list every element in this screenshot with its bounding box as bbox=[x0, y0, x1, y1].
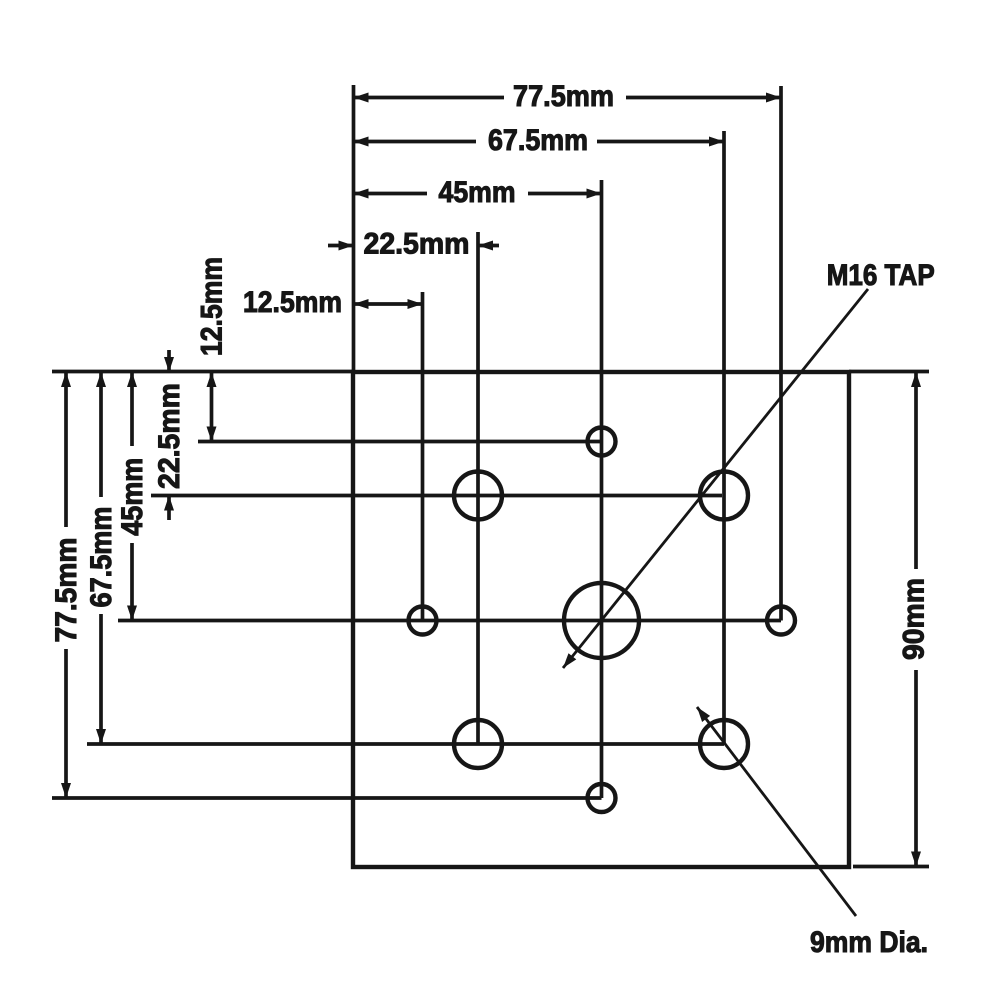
svg-text:12.5mm: 12.5mm bbox=[243, 286, 342, 319]
leader line M16 TAP bbox=[563, 289, 868, 668]
svg-text:67.5mm: 67.5mm bbox=[488, 124, 588, 157]
extension line 45mm row bbox=[118, 619, 781, 623]
dimension 90mm right bbox=[898, 372, 931, 867]
hole mid-right small bbox=[767, 607, 795, 635]
svg-text:12.5mm: 12.5mm bbox=[196, 257, 229, 356]
svg-text:45mm: 45mm bbox=[439, 176, 516, 209]
extension line top edge horizontal bbox=[52, 370, 355, 374]
svg-text:45mm: 45mm bbox=[116, 458, 149, 536]
hole lower-right 9mm bbox=[700, 720, 748, 768]
svg-text:22.5mm: 22.5mm bbox=[153, 383, 186, 489]
extension line 77.5mm row bbox=[52, 796, 602, 800]
dimension 45mm left bbox=[116, 372, 149, 621]
hole mid-left small bbox=[409, 607, 437, 635]
extension line left edge vertical bbox=[352, 85, 356, 372]
hole top-center small bbox=[588, 428, 616, 456]
label 9mm Dia bbox=[810, 926, 928, 959]
svg-text:67.5mm: 67.5mm bbox=[85, 507, 118, 608]
hole lower-left 9mm bbox=[454, 720, 502, 768]
hole upper-left 9mm bbox=[454, 472, 502, 520]
extension line top right bbox=[849, 370, 929, 374]
extension line 22.5mm row bbox=[151, 494, 722, 498]
hole bottom-center small bbox=[588, 784, 616, 812]
extension line bottom right bbox=[853, 865, 929, 869]
hole center M16 bbox=[564, 583, 639, 658]
label M16 TAP bbox=[827, 259, 935, 292]
svg-text:90mm: 90mm bbox=[898, 578, 931, 660]
dimension 67.5mm top bbox=[354, 124, 725, 157]
svg-text:77.5mm: 77.5mm bbox=[513, 80, 614, 113]
leader line 9mm Dia bbox=[697, 707, 856, 916]
svg-text:22.5mm: 22.5mm bbox=[364, 228, 470, 261]
extension line 67.5mm row bbox=[87, 742, 724, 746]
dimension 77.5mm left bbox=[50, 372, 83, 798]
dimension 22.5mm left bbox=[153, 350, 186, 520]
dimension 45mm top bbox=[354, 176, 602, 209]
extension line 12.5mm row bbox=[198, 440, 602, 444]
extension line 45mm column bbox=[600, 180, 604, 798]
extension line 67.5mm column bbox=[722, 131, 726, 744]
dimension 67.5mm left bbox=[85, 372, 118, 744]
svg-text:77.5mm: 77.5mm bbox=[50, 538, 83, 643]
dimension 12.5mm left bbox=[196, 257, 229, 442]
svg-text:M16 TAP: M16 TAP bbox=[827, 259, 935, 292]
hole upper-right 9mm bbox=[700, 472, 748, 520]
dimension 12.5mm top bbox=[243, 286, 423, 319]
dimension 77.5mm top bbox=[354, 80, 782, 113]
svg-text:9mm Dia.: 9mm Dia. bbox=[810, 926, 928, 959]
extension line 12.5mm column bbox=[421, 292, 425, 621]
plate outline bbox=[353, 372, 849, 867]
extension line 77.5mm column bbox=[779, 86, 783, 621]
dimension 22.5mm top bbox=[328, 228, 499, 261]
extension line 22.5mm column bbox=[476, 232, 480, 744]
